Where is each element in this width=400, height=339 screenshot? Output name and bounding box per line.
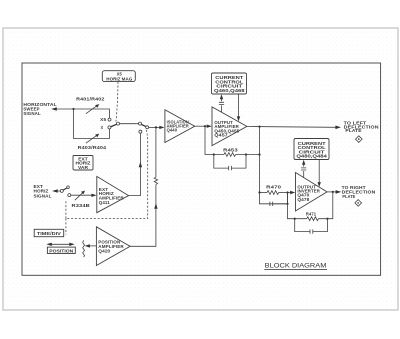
- switch S2 blade: [141, 124, 146, 126]
- resistor R403/R404 (variable): [78, 134, 107, 151]
- diagram border: [22, 63, 381, 275]
- label: to right deflection plate: [342, 185, 376, 199]
- svg-text:VAR: VAR: [78, 165, 88, 170]
- wire: blade to switch S2: [120, 123, 139, 125]
- wire: Q460 box left lead with capacitor: [221, 98, 223, 112]
- capacitor C480: [301, 168, 306, 170]
- amplifier Q420 position: [96, 227, 130, 266]
- control box: current control circuit Q480 Q484: [294, 139, 329, 160]
- switch S2 common: [139, 122, 142, 125]
- node: R471 left tap: [294, 218, 296, 220]
- svg-text:R334B: R334B: [72, 203, 90, 208]
- wire: inverter output to right deflection plate: [327, 191, 336, 193]
- node: R471 right tap: [326, 218, 328, 220]
- capacitor C460: [219, 102, 224, 104]
- resistor R453 feedback: [205, 126, 260, 156]
- wire: Q460 box right lead: [238, 94, 240, 117]
- svg-text:X: X: [101, 125, 104, 130]
- svg-text:Q480,Q484: Q480,Q484: [296, 154, 328, 159]
- svg-text:TIME/DIV: TIME/DIV: [37, 231, 61, 236]
- node A junction: [72, 108, 74, 110]
- node: R470 left junction: [258, 191, 260, 193]
- svg-text:X5: X5: [100, 117, 107, 122]
- svg-text:SIGNAL: SIGNAL: [34, 193, 52, 198]
- switch S2 contact ext: [139, 130, 142, 133]
- node C junction: [258, 126, 260, 128]
- test point diamond left: [356, 136, 363, 143]
- svg-text:Q457: Q457: [214, 132, 228, 137]
- node: R453 right tap: [245, 153, 247, 155]
- amplifier Q440 isolation: [165, 110, 195, 143]
- wire: lower branch: [74, 109, 110, 139]
- node B junction: [204, 125, 206, 127]
- node: inverter input junction: [286, 191, 288, 193]
- svg-text:POSITION: POSITION: [49, 248, 73, 253]
- amplifier Q470 output inverter: [296, 173, 328, 212]
- control box: position: [47, 247, 75, 253]
- capacitor C471 loop: [295, 219, 328, 234]
- svg-text:R470: R470: [266, 185, 282, 190]
- wire: vertical bus from node C: [260, 127, 288, 204]
- capacitor C453 loop: [214, 155, 246, 171]
- svg-text:PLATE: PLATE: [345, 128, 361, 133]
- svg-text:R403/R404: R403/R404: [78, 145, 107, 150]
- control box: current control circuit Q460 Q468: [212, 73, 247, 94]
- capacitor C470 input path: [270, 193, 288, 207]
- label box: ext horiz var: [73, 156, 93, 171]
- wire: Q440 to output amplifier: [195, 125, 207, 127]
- switch S3 pivot: [60, 189, 63, 192]
- wire: Q420 output up to node A: [130, 129, 156, 247]
- svg-text:Q460,Q468: Q460,Q468: [214, 88, 246, 93]
- svg-text:Q420: Q420: [98, 249, 111, 254]
- resistor R471 feedback: [288, 192, 333, 221]
- dashed link: mag switch: [116, 82, 118, 122]
- svg-text:Q478: Q478: [297, 197, 310, 202]
- control: x5 horiz mag box: [102, 71, 135, 82]
- switch S1 blade: [111, 124, 117, 127]
- node: horizontal sweep input label: [23, 102, 57, 116]
- switch S3 blade open: [63, 188, 67, 190]
- svg-text:BLOCK DIAGRAM: BLOCK DIAGRAM: [265, 263, 327, 270]
- resistor R470: [260, 185, 291, 195]
- dashed gang linkage: [66, 130, 148, 235]
- node: ext horiz signal label: [34, 184, 52, 198]
- svg-text:SIGNAL: SIGNAL: [23, 111, 41, 116]
- svg-text:Q440: Q440: [167, 128, 178, 133]
- title: block diagram: [264, 263, 327, 270]
- svg-text:Q411: Q411: [99, 200, 111, 205]
- svg-text:R453: R453: [223, 147, 239, 152]
- amplifier Q450 output: [212, 107, 247, 146]
- control box: time/div: [34, 229, 64, 236]
- wire: into isolation amplifier: [149, 126, 160, 128]
- amplifier Q411 ext horiz: [97, 176, 129, 212]
- node D junction: [332, 191, 334, 193]
- svg-text:R401/R402: R401/R402: [76, 96, 105, 101]
- resistor (position feedback): [154, 177, 157, 184]
- switch S1 contact X5: [108, 118, 111, 121]
- test point diamond right: [355, 200, 362, 207]
- label: to left deflection plate: [344, 121, 379, 134]
- wire: Q480 box left lead with capacitor: [303, 164, 305, 178]
- wire: ext input: [57, 190, 61, 192]
- arrow into ext horiz amplifier: [91, 194, 96, 197]
- node: R453 left tap: [213, 153, 215, 155]
- switch S3 contact: [68, 194, 71, 197]
- svg-text:HORIZ MAG: HORIZ MAG: [106, 76, 132, 81]
- wire: Q411 output up to switch S2: [129, 133, 141, 195]
- potentiometer: position control: [83, 240, 97, 257]
- arrow into inverter: [290, 191, 295, 194]
- resistor R401/R402 (variable): [76, 96, 105, 113]
- node: feedback junction: [155, 126, 157, 128]
- resistor R334B (variable): [71, 191, 92, 208]
- switch S1 contact X: [108, 126, 111, 129]
- arrow into sweep label: [51, 107, 57, 110]
- control arrow: position adjust: [46, 243, 74, 246]
- wire: Q480 box right lead: [318, 160, 320, 183]
- node: capacitor path junction: [286, 203, 288, 205]
- svg-text:PLATE: PLATE: [342, 194, 355, 199]
- node: bus junction at R453: [258, 153, 260, 155]
- wire: sweep input line: [57, 109, 110, 118]
- svg-text:R471: R471: [306, 212, 317, 217]
- wire: output line to left deflection plate: [247, 126, 336, 129]
